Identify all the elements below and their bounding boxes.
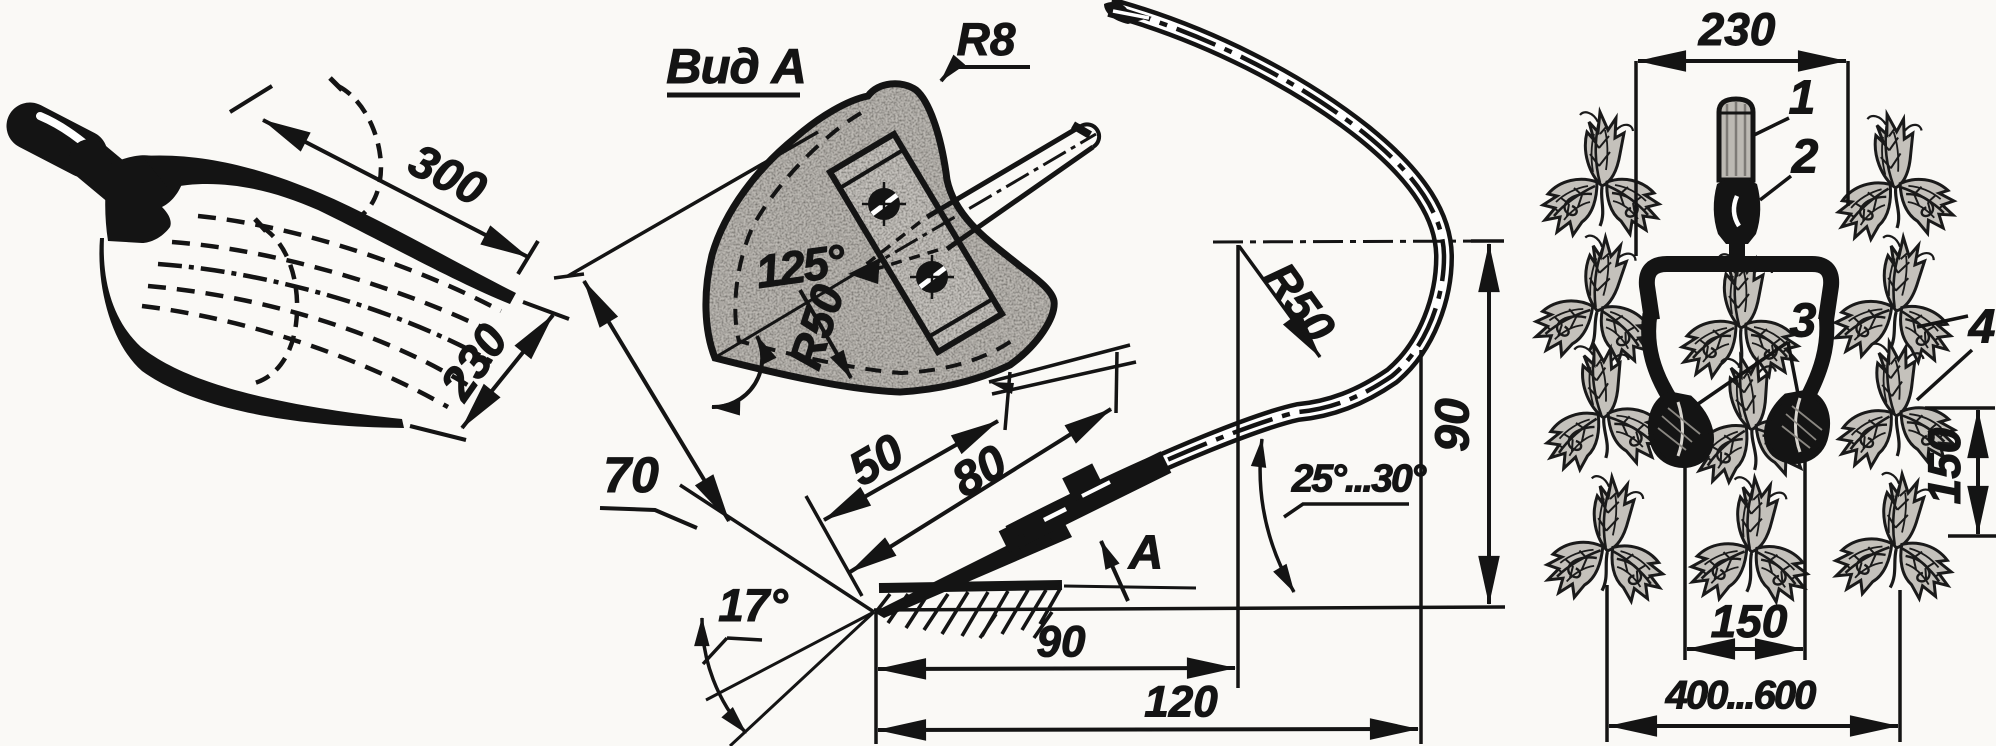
dim 80 extension tick right: [1116, 352, 1117, 413]
svg-text:90: 90: [1427, 398, 1480, 452]
ground thin line right of hatch: [1064, 586, 1196, 588]
dim 90 vertical line: [1487, 244, 1491, 604]
angle 17 leader: [703, 638, 762, 664]
hidden tine dashed line 4: [148, 286, 474, 389]
tool handle top view: [1719, 99, 1753, 180]
plant row right 3: [1832, 338, 1956, 469]
fork crotch body: [105, 155, 182, 243]
lower dashed arc tip tick: [255, 219, 266, 231]
vertical extension at hook right: [1419, 350, 1423, 744]
clamp inner line lower: [833, 175, 925, 330]
dim 120 line: [878, 729, 1418, 730]
ground hatch lines: [876, 589, 1060, 638]
hook radius center dash-dot horizontal: [1213, 241, 1500, 242]
vertical extension at blade tip: [874, 612, 878, 744]
ground surface bar: [879, 585, 1062, 588]
dim 70 extension end tail: [554, 274, 584, 278]
clamp side view dark band: [1004, 462, 1166, 542]
fork upper tine: [142, 155, 516, 304]
angle 25-30 leader underline: [1284, 504, 1409, 517]
dim 70 extension line lower: [680, 485, 874, 612]
dim 230 extension line bottom: [410, 426, 466, 440]
rod sharpened end lower line: [992, 362, 1136, 394]
fork lower tine: [99, 238, 404, 428]
screw 1: [862, 182, 906, 226]
dim 50 line: [824, 421, 998, 520]
fork ferrule: [90, 160, 126, 190]
svg-text:120: 120: [1144, 678, 1218, 727]
hidden tine dash-dot line 3: [158, 264, 492, 362]
left tine arm line: [1678, 402, 1683, 456]
hidden tine dashed line 2: [172, 242, 504, 338]
hook centerline dash-dot: [1010, 7, 1444, 535]
plant row left 1: [1543, 112, 1659, 235]
svg-text:150: 150: [1711, 595, 1788, 647]
clamp end inner bar bottom: [930, 300, 991, 336]
label 2 leader: [1760, 176, 1791, 200]
fork handle stub: [30, 126, 84, 154]
clamp inner line upper: [905, 152, 1000, 311]
ferrule separation line: [107, 166, 116, 206]
clamp plate outline: [830, 134, 1002, 352]
yoke right arm: [1806, 314, 1827, 400]
clamp side view hook piece: [1021, 534, 1053, 549]
view direction arrow A: [1101, 541, 1128, 601]
clamp side view white notch: [1044, 509, 1066, 520]
tool neck: [1729, 244, 1745, 262]
right tine arm line: [1796, 398, 1801, 452]
rod end cap: [1081, 124, 1099, 147]
svg-text:230: 230: [1698, 3, 1776, 55]
view label underline: [667, 93, 800, 98]
R8 leader arrow: [941, 67, 1030, 81]
dim 70 extension line upper: [568, 132, 818, 276]
plant row right 2: [1832, 230, 1962, 366]
rod sharpened tip: [848, 258, 880, 284]
svg-text:4: 4: [1968, 301, 1996, 354]
dim 150 right extension bottom: [1948, 534, 1996, 538]
svg-text:R8: R8: [957, 13, 1016, 65]
dim 400-600 extension left: [1605, 585, 1609, 742]
rod axis ray from blade corner: [716, 272, 858, 357]
svg-text:150: 150: [1918, 427, 1970, 504]
plant row left 2: [1532, 229, 1664, 367]
blade side view wedge: [874, 518, 1072, 618]
rod centerline dash-dot: [858, 134, 1096, 274]
dim 300 extension tick left: [230, 86, 272, 112]
HOOK: [1010, 2, 1504, 744]
angle 17 fan line upper: [706, 612, 874, 700]
screw 2: [910, 255, 954, 299]
label 4 leader lower: [1917, 350, 1972, 400]
left tine hatch highlights: [1658, 408, 1700, 450]
clamp end inner bar top: [840, 150, 903, 188]
plant row left 4: [1544, 472, 1670, 605]
rod sharpened end upper line: [989, 345, 1130, 382]
svg-text:1: 1: [1789, 72, 1816, 125]
hidden tine end dashed arc upper: [338, 86, 381, 223]
clamp side view upper block: [1068, 475, 1098, 490]
label 3 leader left: [1698, 342, 1788, 404]
tool yoke bail: [1647, 264, 1831, 320]
dim 230 line: [462, 315, 553, 428]
blade inner dashed outline: [735, 113, 1017, 373]
hidden tine end dashed arc lower: [255, 227, 297, 383]
svg-text:3: 3: [1790, 295, 1817, 348]
svg-text:70: 70: [603, 447, 659, 503]
RIGHT-SECTION: [1532, 3, 1996, 742]
socket highlight: [1734, 196, 1739, 226]
rod shaft to upper right: [927, 126, 1093, 249]
plant middle 1: [1682, 254, 1798, 377]
dim 230 extension right: [1846, 61, 1850, 206]
dim 300 extension tick right: [518, 241, 538, 274]
plant row right 4: [1833, 468, 1961, 602]
baseline ground extension: [874, 607, 1505, 610]
svg-text:2: 2: [1791, 131, 1819, 184]
dim 80 extension line left: [806, 496, 862, 596]
dim 90 horizontal line: [878, 668, 1235, 669]
rod hidden outline dashed lower: [866, 250, 938, 272]
clamp side view white slit 2: [1082, 482, 1110, 496]
angle 17 arc: [702, 618, 746, 733]
svg-text:A: A: [1128, 527, 1164, 580]
dim 150 right line: [1976, 410, 1980, 534]
blade outline (heart shaped): [706, 84, 1054, 392]
VIEW-A: [554, 13, 1117, 612]
fork handle highlight: [40, 116, 90, 148]
plant row right 1: [1830, 109, 1956, 242]
plant middle 3: [1689, 474, 1813, 605]
label 4 leader upper: [1917, 316, 1968, 327]
svg-text:400...600: 400...600: [1665, 674, 1817, 718]
right tine hatch highlights: [1782, 406, 1822, 448]
angle 125 arc: [712, 336, 762, 407]
svg-text:90: 90: [1037, 618, 1086, 667]
tool socket: [1714, 178, 1761, 244]
dim 50 extension tick right: [1005, 372, 1010, 430]
LEFT-FORK: [30, 78, 569, 440]
yoke left arm: [1649, 314, 1672, 402]
svg-text:17°: 17°: [718, 579, 788, 631]
hook tip white slit: [1113, 11, 1149, 18]
dim 70 line: [584, 281, 729, 521]
dim 400-600 extension right: [1898, 590, 1902, 742]
dim 230 extension line top: [523, 302, 569, 319]
dim 150 right extension top: [1925, 406, 1995, 410]
right tine paddle: [1766, 392, 1827, 462]
handle grain lines: [1727, 102, 1745, 176]
angle 17 fan line lower: [730, 612, 874, 746]
dim 150 bottom extension right: [1803, 455, 1807, 660]
dim 230 top line: [1638, 59, 1846, 63]
label 1 leader: [1752, 118, 1789, 136]
radius center top solid segment: [1471, 239, 1504, 243]
hook sharpened tip: [1104, 2, 1152, 24]
svg-text:25°...30°: 25°...30°: [1291, 457, 1427, 500]
svg-text:Вид А: Вид А: [666, 40, 806, 94]
plant row left 3: [1537, 338, 1665, 472]
hidden tine dashed line 1: [198, 216, 501, 311]
rod end dark tick: [1073, 125, 1090, 135]
plant middle 2: [1684, 350, 1814, 486]
dim 70 leader underline: [600, 508, 697, 528]
dim 300 line: [263, 120, 528, 257]
handle cap line: [1720, 112, 1752, 115]
hook R50 radius arrow: [1239, 246, 1320, 357]
left tine paddle: [1650, 394, 1711, 466]
dim 80 line: [850, 409, 1111, 572]
upper dashed arc tip tick: [330, 78, 342, 90]
rod hidden outline dashed upper: [864, 222, 920, 266]
dim 150 bottom extension left: [1683, 462, 1687, 660]
label 3 leader right: [1788, 342, 1798, 394]
hook tine tube dark body: [1010, 7, 1444, 535]
dim 150 bottom line: [1687, 647, 1803, 651]
angle 25-30 arc: [1260, 439, 1294, 592]
hook tine tube white core: [1010, 7, 1444, 535]
vertical extension from radius center: [1236, 245, 1240, 688]
dim 230 extension left: [1634, 61, 1638, 256]
hidden tine dashed line 5: [142, 306, 448, 407]
dim 400-600 line: [1609, 724, 1898, 728]
rod sharpened end tip: [989, 382, 1014, 394]
SIDEVIEW: [702, 345, 1505, 746]
R50 blade radius arrow: [800, 290, 851, 378]
